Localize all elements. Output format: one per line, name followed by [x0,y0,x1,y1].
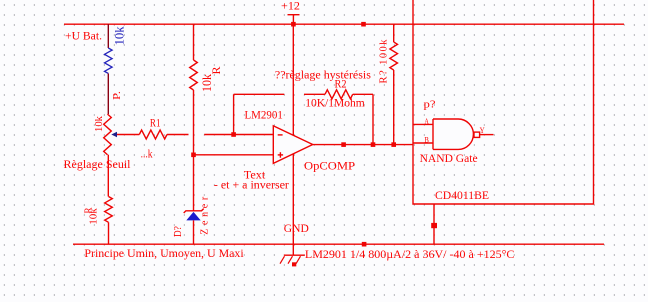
svg-text:R1: R1 [150,116,161,130]
svg-text:- et + a inverser: - et + a inverser [214,178,289,192]
junction output R2 [371,142,376,147]
wire feedback horizontal (dangling right) [234,93,285,95]
wire op-amp minus input (dangling left) [204,134,273,136]
resistor R 10k (bottom left) [105,197,113,223]
svg-text:10k: 10k [200,73,214,92]
svg-text:+12: +12 [281,1,300,13]
svg-text:??règlage hystérésis: ??règlage hystérésis [275,68,371,82]
svg-text:Règlage Seuil: Règlage Seuil [64,157,132,171]
junction dots [191,22,396,247]
wire zener to ground bus [193,220,195,244]
junction +12 on bus [291,22,296,27]
potentiometer P 10k [104,114,112,155]
resistor R 10k (mid) [190,60,198,90]
svg-text:Principe Umin, Umoyen, U Maxi: Principe Umin, Umoyen, U Maxi [84,246,244,260]
svg-text:...k: ...k [141,147,153,161]
ground hatch 2 [288,256,293,264]
svg-text:Y: Y [480,125,485,135]
wire R? branch top [393,24,395,42]
junction top bus spare [361,22,366,27]
junction bottom bus spare [362,242,367,247]
op-amp plus sign [278,152,283,158]
svg-text:p?: p? [424,99,436,111]
junction plus-input tee [191,153,196,158]
wire feedback stub vertical [233,94,235,134]
NAND gate U2 body [433,119,473,149]
svg-text:P.: P. [111,91,123,100]
svg-text:OpCOMP: OpCOMP [304,158,355,172]
wire bottom ground bus [73,243,604,245]
wire pot bottom to R [107,155,109,197]
wire top supply bus [64,23,624,25]
ground symbol bar [284,254,305,256]
wire R to ground bus [108,222,110,244]
svg-text:GND: GND [284,221,309,235]
wire center power/gnd vertical [292,24,294,255]
power +12 symbol [288,15,300,25]
resistor R1 [139,130,167,139]
IC pin terminal square [431,223,437,228]
svg-text:A: A [424,117,429,126]
junction output dot 1 [341,142,346,147]
resistor R2 [325,90,353,99]
wire R1 right lead (dangling) [167,134,189,136]
junction minus-input tee [231,132,236,137]
resistor R? 100k [390,42,398,70]
ground terminal square [292,262,296,266]
zener diode D? anode triangle (blue) [186,212,200,221]
ground hatch 3 [296,256,301,264]
svg-text:10k: 10k [89,207,100,224]
svg-text:NAND Gate: NAND Gate [420,151,478,165]
wire R2 right lead [353,93,373,95]
NAND gate input stub A [413,123,433,125]
op-amp U1 LM2901 triangle [273,126,312,164]
svg-text:D?: D? [172,226,184,237]
op-amp minus sign [278,134,283,136]
svg-text:LM2901: LM2901 [245,107,283,121]
wire IC ground pin to bus [433,204,435,244]
svg-text:10k: 10k [94,115,105,132]
wiper arrow (pot) [111,132,117,138]
wire vertical mid branch top [193,24,195,60]
wire vertical battery branch lower [107,74,109,115]
wire wiper lead [117,134,140,136]
svg-text:LM2901 1/4 800µA/2 à 36V/ -40: LM2901 1/4 800µA/2 à 36V/ -40 à +125°C [305,247,514,261]
IC box CD4011BE [413,0,594,204]
resistor 10k (blue) [105,48,113,73]
wire NAND output Y [480,134,494,136]
svg-text:10k: 10k [112,26,126,46]
NAND gate input stub B [413,142,433,144]
wire R2 down to output [372,94,374,144]
svg-text:R: R [209,67,223,75]
svg-text:+U Bat.: +U Bat. [65,29,102,43]
wire op-amp plus input [194,154,274,156]
wire vertical battery branch upper [107,24,109,48]
svg-text:CD4011BE: CD4011BE [435,188,489,202]
wire R? down to output [393,70,395,145]
svg-text:R? 100k: R? 100k [379,39,390,84]
NAND gate inversion square bubble [474,132,480,137]
svg-text:B: B [424,136,429,145]
wire R2 left lead [304,93,325,95]
svg-text:10K/1Mohm: 10K/1Mohm [305,95,365,109]
wire op-amp output [313,144,413,146]
ground hatch 1 [280,256,285,264]
wire mid branch to zener [193,90,195,211]
zener diode D? cathode bar [184,209,204,213]
junction output R? [391,142,396,147]
svg-text:R2: R2 [335,76,347,90]
